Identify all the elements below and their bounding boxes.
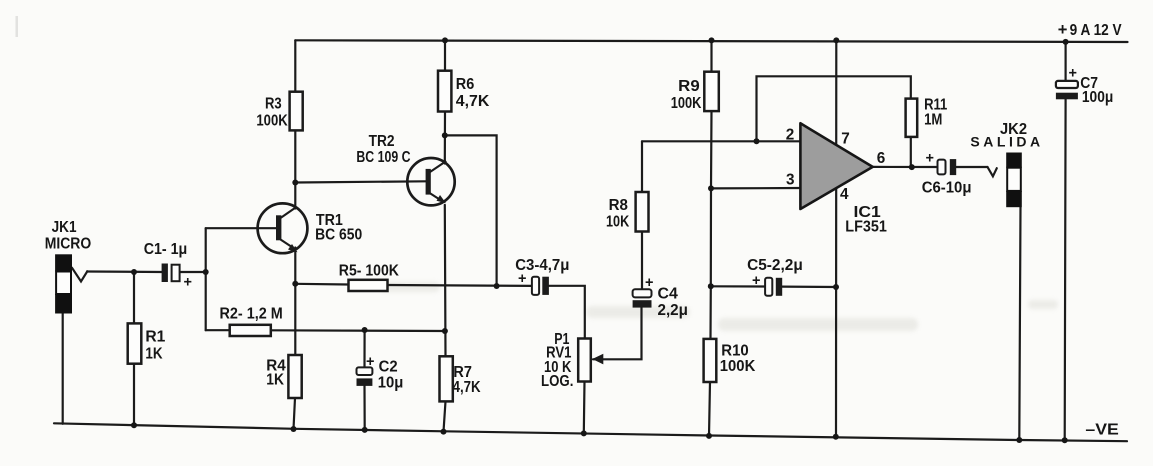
svg-text:–VE: –VE (1085, 422, 1118, 439)
node JK2 tip contact V (988, 167, 997, 176)
junction node R9 top rail (709, 37, 715, 43)
junction node JK2 sleeve ground (1016, 437, 1022, 443)
wire R10 bottom lead (709, 382, 710, 436)
resistor R4 (288, 355, 301, 398)
wire P1 bottom lead (583, 382, 586, 434)
svg-text:MICRO: MICRO (45, 235, 92, 252)
potentiometer P1 RV1 body (578, 339, 591, 382)
junction node R10/C5 (708, 283, 714, 289)
wire R1 bottom lead (133, 364, 135, 426)
svg-text:+: + (926, 151, 934, 167)
junction node R11/pin6 output (909, 164, 915, 170)
svg-text:R3: R3 (265, 96, 282, 113)
wire R9 top lead (710, 40, 712, 71)
svg-text:C6-10μ: C6-10μ (922, 179, 972, 196)
svg-text:9 A 12 V: 9 A 12 V (1070, 22, 1123, 39)
svg-text:C2: C2 (379, 358, 398, 375)
svg-text:1K: 1K (266, 372, 284, 389)
wire C5 left lead (711, 285, 765, 287)
svg-text:7: 7 (841, 131, 850, 148)
junction node R4 ground (291, 426, 297, 432)
wire TR2 collector branch right (445, 135, 497, 286)
wire R2 right lead to TR2 emitter line (271, 329, 445, 332)
junction node TR1 collector (292, 180, 298, 186)
resistor R6 (438, 71, 451, 112)
transistor TR2 (407, 158, 454, 205)
junction node R10 ground (706, 433, 712, 439)
svg-text:R8: R8 (609, 197, 629, 214)
wire C2 top lead (363, 330, 365, 367)
svg-text:R2- 1,2 M: R2- 1,2 M (220, 305, 283, 322)
svg-text:100K: 100K (256, 113, 287, 130)
top supply rail (295, 40, 1127, 42)
wire pin3 line down to C5 node (710, 188, 712, 286)
wire TR2 emitter down through R2 node to R7 (444, 205, 447, 356)
wire R11 bottom lead (910, 137, 912, 167)
resistor R3 (290, 92, 303, 131)
svg-text:+: + (184, 275, 192, 291)
wire C5 right lead (782, 286, 836, 289)
svg-text:+: + (752, 273, 760, 289)
svg-text:4: 4 (840, 186, 849, 203)
svg-text:BC 109 C: BC 109 C (356, 149, 410, 166)
svg-text:C1- 1μ: C1- 1μ (144, 241, 188, 258)
svg-text:100μ: 100μ (1082, 89, 1113, 106)
svg-text:3: 3 (786, 172, 795, 189)
wire op-amp pin 3 input (711, 187, 800, 190)
junction node C1/base line (203, 269, 209, 275)
capacitor C3 (532, 277, 549, 295)
bottom ground rail (54, 423, 1127, 441)
junction node R5/C3 (494, 283, 500, 289)
wire op-amp supply vertical pin7/pin4 (835, 40, 837, 436)
resistor R7 (440, 356, 453, 401)
junction node R6 top rail (442, 37, 448, 43)
svg-text:LF351: LF351 (845, 218, 887, 235)
junction node R9/pin3 (708, 185, 714, 191)
junction node P1 ground (581, 430, 587, 436)
wire R7 bottom lead (444, 401, 446, 431)
svg-text:2,2μ: 2,2μ (658, 302, 688, 319)
wire R9 bottom to pin3 node and R10 (710, 111, 713, 188)
wire R3 top lead (294, 40, 296, 92)
transistor TR1 (258, 203, 308, 253)
resistor R11 (906, 99, 918, 137)
junction node C2/R2 wire (362, 327, 368, 333)
junction node op-amp supply top rail (833, 37, 839, 43)
jack JK1 plug (55, 254, 72, 313)
svg-text:+: + (1058, 21, 1068, 39)
capacitor C7 (1056, 81, 1078, 99)
svg-text:R1: R1 (145, 328, 165, 345)
junction node pin4 line ground (833, 434, 839, 440)
scan artifact line top-left (16, 16, 19, 37)
capacitor C6 (938, 159, 957, 175)
wire op-amp output pin6 (873, 166, 938, 168)
capacitor C4 (633, 289, 652, 307)
potentiometer P1 wiper arrowhead (592, 354, 603, 365)
op-amp U1 IC1 LF351 (800, 123, 872, 209)
svg-text:JK1: JK1 (52, 219, 77, 236)
wire R10 top lead (709, 286, 711, 339)
resistor R9 (704, 72, 719, 111)
resistor R1 (128, 323, 142, 363)
wire R2 left lead (206, 329, 230, 331)
svg-text:LOG.: LOG. (541, 373, 573, 390)
svg-text:BC 650: BC 650 (315, 227, 362, 244)
wire R6 top lead (444, 40, 446, 70)
resistor R5 (349, 280, 388, 291)
wire C7 bottom lead (1064, 99, 1067, 440)
capacitor C1 (162, 264, 180, 283)
wire R5 to C3 (388, 284, 532, 287)
junction node C5/V- line (833, 284, 839, 290)
junction node R2/TR2 emitter (442, 328, 448, 334)
wire R3 bottom lead / TR1 collector (294, 130, 296, 208)
junction node C2 ground (362, 427, 368, 433)
svg-text:4,7K: 4,7K (456, 93, 490, 110)
junction node C7 ground (1062, 437, 1068, 443)
wire input node (87, 270, 162, 273)
svg-text:100K: 100K (720, 358, 756, 375)
wire C7 top lead (1064, 42, 1066, 81)
junction node R7 ground (441, 429, 447, 435)
junction node R1 ground (131, 422, 137, 428)
wire R8 top lead to pin2 (641, 141, 643, 192)
resistor R10 (704, 339, 717, 382)
svg-text:2: 2 (786, 127, 795, 144)
wire C1 to base corner (180, 271, 206, 273)
wire TR1 collector node to TR2 base (295, 181, 426, 182)
junction node input/R1 (131, 269, 137, 275)
junction node TR2 collector/R6 (442, 132, 448, 138)
wire JK1 sleeve (62, 313, 64, 424)
svg-text:R5- 100K: R5- 100K (339, 263, 399, 280)
svg-text:10K: 10K (606, 213, 629, 230)
wire op-amp pin 2 input (642, 140, 800, 142)
wire base vertical (205, 228, 207, 330)
svg-text:+: + (518, 271, 526, 287)
svg-text:1M: 1M (924, 112, 942, 129)
junction node pin2/feedback (754, 138, 760, 144)
wire feedback node up and over to R11 (757, 76, 911, 141)
svg-text:TR2: TR2 (369, 133, 395, 150)
svg-text:10μ: 10μ (378, 374, 404, 391)
wire JK2 sleeve (1019, 207, 1020, 440)
svg-text:C4: C4 (658, 285, 679, 302)
resistor R2 (230, 325, 271, 336)
node JK1 tip contact V (72, 268, 87, 282)
wire R6 bottom lead / TR2 collector (444, 112, 446, 164)
wire C4 top lead to R8 (641, 232, 643, 290)
svg-text:1K: 1K (145, 346, 162, 363)
jack JK2 plug (1006, 153, 1022, 208)
wire R5 left lead (295, 283, 348, 286)
svg-text:4,7K: 4,7K (453, 379, 481, 396)
wire C6 to JK2 tip (956, 166, 987, 168)
resistor R8 (636, 192, 649, 232)
svg-text:100K: 100K (671, 95, 702, 112)
svg-text:+: + (645, 275, 653, 291)
wire R1 top lead (133, 272, 135, 324)
wire P1 wiper from C4 (593, 308, 642, 360)
wire C2 bottom lead (363, 386, 365, 430)
svg-text:C5-2,2μ: C5-2,2μ (747, 257, 803, 274)
svg-text:6: 6 (877, 150, 886, 167)
wire base horizontal to TR1 (206, 227, 277, 229)
capacitor C5 (765, 278, 782, 296)
svg-text:+: + (1069, 66, 1077, 82)
junction node TR1 emitter/R5/R4 (292, 281, 298, 287)
svg-text:+: + (366, 354, 374, 370)
junction node C7 top rail (1063, 39, 1069, 45)
wire R4 bottom lead (294, 398, 296, 429)
wire TR1 emitter to R4 (294, 248, 296, 356)
svg-text:R9: R9 (678, 78, 700, 95)
capacitor C2 (357, 367, 373, 386)
svg-text:R6: R6 (456, 76, 475, 93)
wire C3 to P1 corner (549, 286, 585, 339)
